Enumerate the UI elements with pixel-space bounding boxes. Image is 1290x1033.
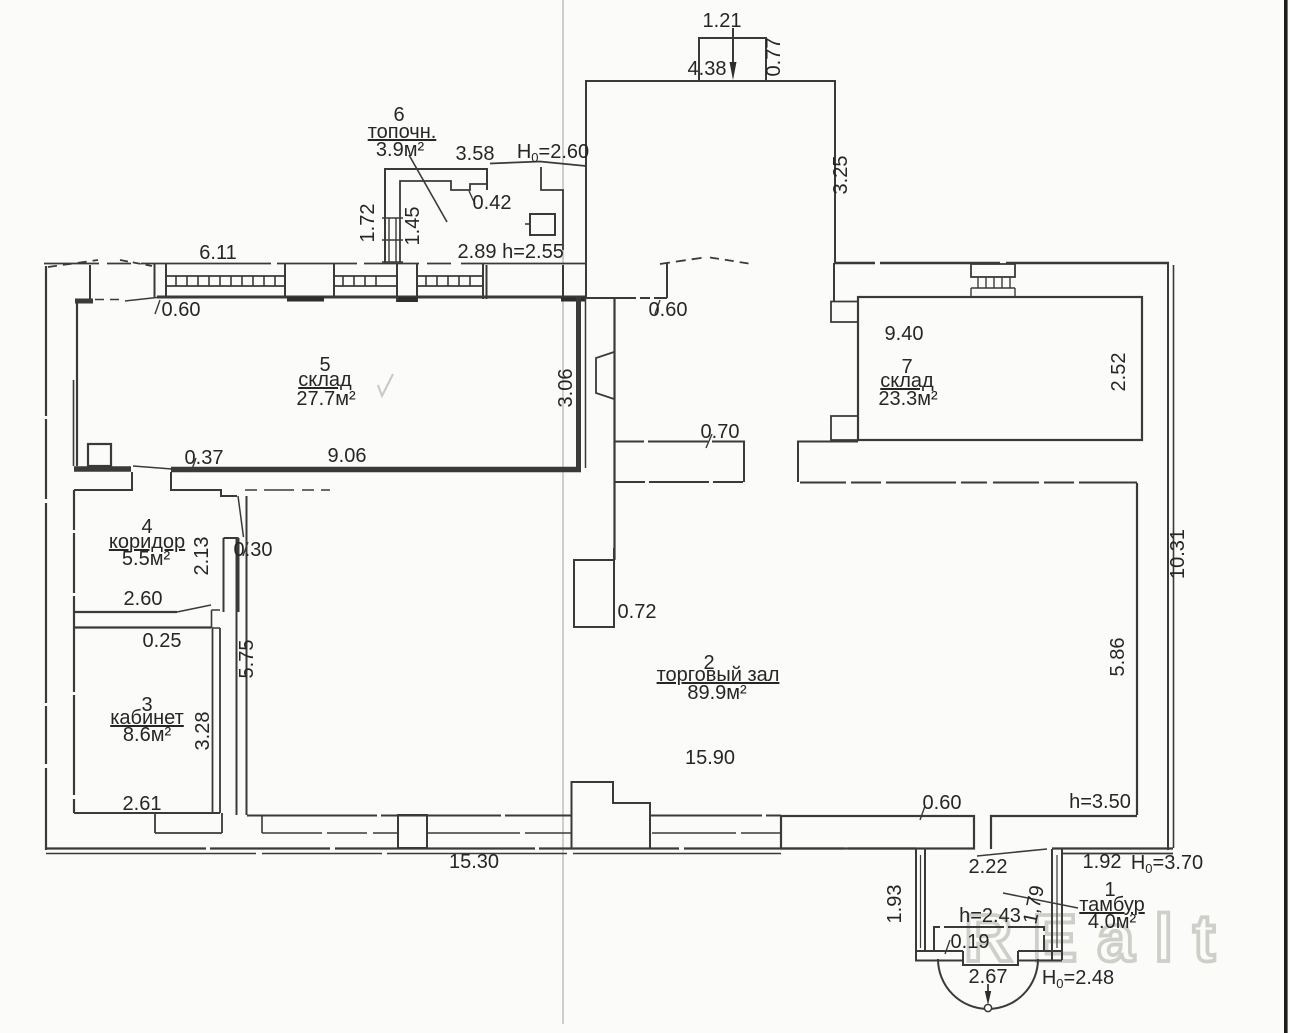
svg-text:3.28: 3.28 [192, 712, 214, 751]
svg-text:5.75: 5.75 [236, 640, 258, 679]
outer wall right (double line) [1167, 263, 1169, 850]
svg-text:4.0м²: 4.0м² [1088, 911, 1137, 933]
hall northeast corner wall [666, 263, 668, 298]
window-to-wall stubs above room7 [971, 288, 1015, 297]
svg-text:0.72: 0.72 [618, 601, 657, 623]
room 5 right wall (thick) [576, 297, 581, 470]
room 3 south wall [74, 812, 220, 814]
torg hall west wall (double) [237, 496, 247, 815]
svg-text:27.7м²: 27.7м² [296, 388, 356, 410]
dim tick 0.60 hall [655, 300, 660, 314]
svg-text:15.90: 15.90 [685, 747, 735, 769]
outer wall top, right of annex [835, 262, 1169, 264]
entry arrow [987, 966, 989, 992]
wall step left of annex [541, 167, 563, 250]
outer wall bottom right part (double line) [1052, 847, 1173, 849]
room 5 bottom wall thick pieces [74, 466, 131, 472]
corridor door leaf [177, 605, 211, 612]
svg-text:2.13: 2.13 [191, 537, 213, 576]
window band hatch ticks strip2 [343, 276, 376, 286]
svg-text:23.3м²: 23.3м² [878, 388, 938, 410]
bottom band top line west [247, 815, 571, 817]
pier B (wide) [285, 263, 334, 297]
pier E before annex [563, 263, 586, 298]
room 3 west wall [73, 612, 75, 813]
annex walls [586, 81, 835, 263]
room 7 walls [858, 297, 1142, 440]
torg hall north dashed boundary [800, 482, 1137, 484]
svg-text:10.31: 10.31 [1167, 529, 1189, 579]
dim tick 0.42 [469, 191, 475, 204]
center pier with steps [572, 782, 651, 848]
corridor north dashed continuation [245, 489, 330, 491]
svg-text:3.06: 3.06 [555, 369, 577, 408]
svg-text:3.25: 3.25 [830, 156, 852, 195]
svg-text:0.70: 0.70 [701, 421, 740, 443]
svg-text:0.19: 0.19 [951, 931, 990, 953]
corridor south wall [74, 611, 177, 613]
room7 left door jamb top [831, 302, 858, 323]
svg-text:89.9м²: 89.9м² [687, 682, 747, 704]
wall stub above room7 jamb [833, 263, 835, 302]
room 5 bottom door leaf 0.37 [133, 466, 172, 469]
svg-text:9.06: 9.06 [328, 445, 367, 467]
room5 top door leaf [125, 297, 166, 302]
svg-text:0.30: 0.30 [234, 539, 273, 561]
svg-text:H0=2.60: H0=2.60 [517, 141, 589, 165]
svg-text:6.11: 6.11 [199, 242, 236, 264]
torg hall east wall [1136, 483, 1138, 815]
dim tick 0.37 [191, 458, 196, 472]
corridor north wall left piece [74, 472, 132, 490]
outer wall top, door dashes at left corner [48, 260, 98, 267]
pencil check mark in room 5 [378, 374, 393, 396]
svg-text:h=2.43: h=2.43 [959, 905, 1021, 927]
svg-text:h=3.50: h=3.50 [1069, 791, 1131, 813]
window band: top hatched strip lines [166, 275, 483, 277]
hall-torg wall band east segment [798, 442, 858, 483]
pier 0.72 in hall [574, 548, 614, 627]
svg-text:h=2.55: h=2.55 [502, 241, 564, 263]
svg-text:2.61: 2.61 [123, 793, 162, 815]
svg-text:0.77: 0.77 [763, 38, 785, 77]
svg-text:1.92: 1.92 [1083, 851, 1122, 873]
tambour entry semicircle [938, 959, 1038, 1009]
big block 0.60 bottom right [781, 816, 974, 849]
pier A verticals [155, 263, 167, 297]
window band hatch ticks strip1 [176, 276, 275, 286]
tambour bottom wall outline [915, 950, 1062, 952]
svg-text:1.72: 1.72 [357, 204, 379, 243]
hall-torg wall band west segment [614, 442, 744, 483]
tambour label leader [1003, 893, 1078, 908]
bay2 jambs [262, 815, 398, 833]
outer wall left (double line) [45, 266, 47, 850]
dim tick 0.30 [243, 542, 248, 556]
window band hatch ticks strip3 [426, 276, 470, 286]
hall north wall piece [586, 297, 614, 299]
svg-text:5.5м²: 5.5м² [122, 548, 171, 570]
tambour door step protrusion [963, 951, 1018, 965]
svg-text:H0=2.48: H0=2.48 [1042, 967, 1114, 991]
room7 left door jamb bottom [831, 416, 858, 440]
svg-text:4.38: 4.38 [688, 58, 727, 80]
topochnaya window 1.72/1.45 on left wall [382, 218, 403, 262]
pier C [397, 263, 417, 302]
outer wall bottom left part (double line) [46, 847, 916, 849]
window sill dashes bay4 [652, 832, 781, 834]
corridor north wall right piece with step [171, 472, 237, 496]
boiler box with tick [530, 214, 555, 235]
svg-text:0.42: 0.42 [473, 192, 512, 214]
annex door dashes on main wall [660, 258, 704, 265]
dim tick 0.70 [706, 434, 712, 448]
hall west wall [613, 298, 615, 560]
svg-text:0.37: 0.37 [185, 447, 224, 469]
wall stub 2.13 between corridor and hall [224, 538, 239, 612]
door leaf 0.30 [238, 496, 244, 537]
dim tick 0.60 bottom [920, 806, 925, 820]
svg-text:2.52: 2.52 [1108, 353, 1130, 392]
svg-text:1.93: 1.93 [884, 885, 906, 924]
svg-text:0.60: 0.60 [162, 299, 201, 321]
room 5 left wall [76, 300, 78, 466]
stove square in room 5 [88, 444, 111, 466]
dim tick 0.19 [945, 940, 950, 954]
corridor west wall [73, 490, 75, 612]
white backing for 2.67 [964, 966, 1012, 984]
outer wall top, left of annex [44, 263, 586, 265]
svg-text:0.60: 0.60 [649, 299, 688, 321]
window sill dashes bay2 [262, 832, 398, 834]
bottom band top line center [650, 815, 781, 817]
niche trapezoid on hall west wall [596, 352, 614, 399]
tambour step rect 0.19 [934, 927, 1044, 951]
window sill dashes bay3 [428, 832, 571, 834]
svg-text:3.9м²: 3.9м² [376, 139, 425, 161]
svg-text:15.30: 15.30 [449, 851, 499, 873]
svg-text:1.45: 1.45 [402, 207, 424, 246]
topochnaya outer wall [385, 169, 487, 263]
svg-text:2.60: 2.60 [124, 588, 163, 610]
tambour left wall (double) [916, 849, 925, 960]
svg-text:H0=3.70: H0=3.70 [1131, 852, 1203, 876]
svg-text:0.25: 0.25 [143, 630, 182, 652]
window in top wall above room7 [971, 264, 1015, 277]
pier D [483, 263, 487, 299]
svg-text:8.6м²: 8.6м² [123, 724, 172, 746]
dim tick 0.60 room5 [155, 300, 160, 314]
pier block at 398 [398, 815, 427, 848]
svg-text:1.21: 1.21 [703, 10, 742, 32]
tambour right wall (double) [1052, 849, 1062, 960]
annex roof small box [699, 38, 766, 81]
svg-text:2.67: 2.67 [969, 966, 1008, 988]
svg-text:2.89: 2.89 [458, 241, 497, 263]
svg-text:3.58: 3.58 [456, 143, 495, 165]
svg-text:0.60: 0.60 [923, 792, 962, 814]
leader line H0=2.60 [490, 162, 586, 167]
label 6 leader line [409, 155, 447, 222]
window bay 1 below room3 [155, 813, 222, 833]
door leaf into tambour [977, 849, 1047, 856]
svg-text:2.22: 2.22 [969, 856, 1008, 878]
scan artifact: faint vertical fold line [562, 0, 564, 1024]
window band bottom line / room5 top wall [157, 296, 586, 299]
topochnaya inner wall with 0.42 notch [400, 181, 487, 263]
annex entry arrow [732, 28, 734, 64]
svg-text:5.86: 5.86 [1107, 638, 1129, 677]
scan artifact: black right edge bar [1284, 0, 1288, 1033]
room3 ne door notch [212, 610, 221, 628]
room 3 east wall (double) [213, 628, 221, 813]
room 3 north wall [74, 626, 211, 628]
svg-text:9.40: 9.40 [885, 323, 924, 345]
se corner piece [991, 816, 1137, 849]
